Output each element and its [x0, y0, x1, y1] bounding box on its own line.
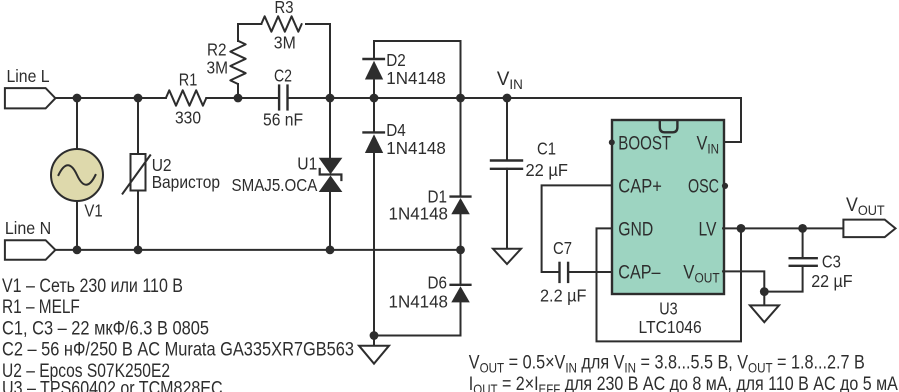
- node VOUT flag: [843, 194, 895, 237]
- svg-text:SMAJ5.OCA: SMAJ5.OCA: [232, 175, 318, 195]
- svg-text:Line N: Line N: [5, 218, 51, 238]
- node Vin label: [497, 68, 523, 92]
- varistor U2: [123, 154, 220, 194]
- wire C1 branch: [506, 98, 508, 249]
- junction dots bottom rail: [73, 246, 465, 255]
- wire CAP- segment: [568, 271, 612, 273]
- svg-text:U3 – TPS60402 or TCM828EC: U3 – TPS60402 or TCM828EC: [2, 378, 223, 392]
- svg-text:GND: GND: [618, 219, 653, 240]
- diode D4: [364, 120, 446, 158]
- svg-text:Варистор: Варистор: [152, 172, 220, 192]
- wire VOUT pin to ground: [723, 271, 764, 291]
- node Line N: [5, 218, 56, 260]
- svg-text:VOUT: VOUT: [846, 194, 885, 218]
- wire GND loop: [597, 228, 742, 341]
- wire C3 branch: [764, 228, 802, 291]
- note parts list: [2, 275, 354, 392]
- junction dots top rail: [73, 94, 512, 103]
- wire R2 leg: [238, 24, 261, 98]
- svg-text:Line L: Line L: [7, 66, 50, 86]
- svg-text:CAP+: CAP+: [618, 176, 662, 197]
- svg-text:D6: D6: [428, 273, 448, 293]
- svg-text:OSC: OSC: [688, 177, 719, 198]
- note output formulas line 1: [469, 351, 865, 375]
- wire bridge left vertical: [373, 41, 375, 336]
- capacitor C7: [540, 238, 587, 306]
- diode D2: [364, 50, 446, 88]
- wire CAP+ loop: [542, 185, 612, 272]
- svg-text:1N4148: 1N4148: [389, 292, 449, 312]
- svg-text:C2 – 56 нФ/250 В AC Murata GA3: C2 – 56 нФ/250 В AC Murata GA335XR7GB563: [2, 339, 354, 361]
- svg-text:22 µF: 22 µF: [811, 271, 852, 291]
- resistor R2: [207, 39, 246, 84]
- wire top rail Line L: [55, 97, 741, 99]
- svg-text:CAP–: CAP–: [618, 262, 661, 283]
- pin BOOST: [609, 133, 672, 154]
- svg-text:VIN: VIN: [497, 68, 523, 92]
- svg-text:3M: 3M: [207, 57, 229, 77]
- wire bridge bottom: [374, 335, 461, 337]
- ground C1: [493, 249, 521, 264]
- svg-text:U3: U3: [659, 299, 677, 319]
- diode D6: [389, 273, 471, 312]
- note output formulas line 2: [469, 373, 898, 392]
- svg-text:LV: LV: [699, 219, 717, 240]
- wire U1 branch: [329, 98, 331, 249]
- svg-text:D2: D2: [386, 50, 406, 70]
- svg-text:C3: C3: [822, 252, 841, 272]
- svg-text:R3: R3: [275, 0, 294, 17]
- svg-text:R1 – MELF: R1 – MELF: [2, 296, 80, 318]
- pin OSC: [688, 177, 728, 198]
- svg-text:22 µF: 22 µF: [526, 160, 569, 180]
- svg-text:330: 330: [175, 108, 201, 128]
- wire bottom rail Line N: [55, 249, 460, 251]
- pin VOUT: [683, 263, 719, 286]
- resistor R1: [166, 69, 206, 127]
- svg-text:2.2 µF: 2.2 µF: [540, 286, 587, 306]
- wire V1 branch: [76, 98, 78, 249]
- ground bridge: [359, 336, 389, 364]
- op-amp U3 LTC1046 body: [612, 120, 724, 337]
- svg-text:D4: D4: [386, 120, 406, 140]
- capacitor C3: [790, 252, 853, 292]
- wire bridge top: [374, 40, 461, 42]
- wire Vin down to IC pin: [723, 98, 741, 142]
- svg-text:V1 – Сеть 230 или 110 В: V1 – Сеть 230 или 110 В: [2, 275, 183, 297]
- junction dot bridge ground: [370, 331, 379, 340]
- svg-text:VOUT = 0.5×VIN для VIN = 3.8..: VOUT = 0.5×VIN для VIN = 3.8...5.5 В, VO…: [469, 351, 865, 375]
- junction dot LV: [737, 224, 746, 233]
- svg-text:1N4148: 1N4148: [389, 204, 449, 224]
- svg-text:C2: C2: [274, 65, 292, 85]
- svg-text:C1, C3 – 22 мкФ/6.3 В 0805: C1, C3 – 22 мкФ/6.3 В 0805: [2, 318, 209, 340]
- wire R3 right leg: [306, 24, 330, 98]
- svg-text:BOOST: BOOST: [618, 133, 671, 154]
- pin VIN: [697, 133, 720, 156]
- resistor R3: [261, 0, 301, 52]
- wire bridge right vertical: [460, 41, 462, 336]
- wire U2 branch: [137, 98, 139, 249]
- svg-text:LTC1046: LTC1046: [639, 317, 702, 337]
- junction dot C3 top: [798, 224, 807, 233]
- svg-text:1N4148: 1N4148: [386, 138, 446, 158]
- capacitor C2: [263, 65, 303, 129]
- svg-text:C7: C7: [553, 238, 572, 258]
- svg-text:C1: C1: [537, 139, 556, 159]
- svg-text:U1: U1: [297, 153, 317, 173]
- TVS diode U1: [232, 153, 342, 195]
- ground output: [750, 292, 779, 323]
- diode D1: [389, 187, 471, 224]
- junction dot output ground: [760, 287, 769, 296]
- svg-text:V1: V1: [84, 201, 102, 221]
- svg-text:1N4148: 1N4148: [386, 68, 446, 88]
- svg-text:56 nF: 56 nF: [263, 110, 303, 130]
- capacitor C1: [491, 139, 568, 180]
- wire LV rail: [723, 227, 843, 229]
- source V1: [51, 149, 103, 221]
- svg-text:3M: 3M: [274, 32, 296, 52]
- node Line L: [5, 66, 56, 109]
- svg-text:R1: R1: [179, 69, 198, 89]
- svg-text:IOUT = 2×IEFF для 230 В AC до: IOUT = 2×IEFF для 230 В AC до 8 мА, для …: [469, 373, 898, 392]
